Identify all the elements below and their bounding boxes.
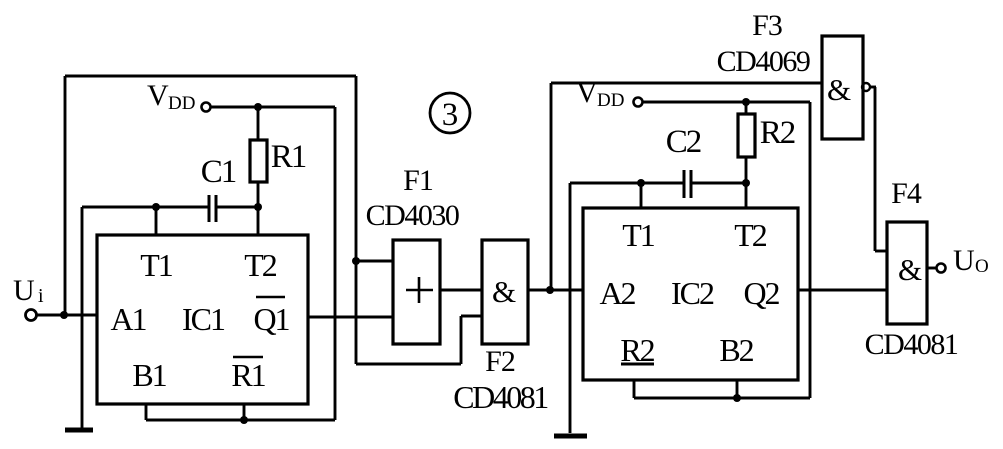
wire F3 output — [870, 86, 876, 89]
svg-text:Q2: Q2 — [743, 275, 779, 311]
svg-text:R2: R2 — [760, 115, 795, 151]
svg-text:A1: A1 — [110, 301, 146, 337]
svg-text:V: V — [576, 76, 598, 109]
terminal Ui — [26, 310, 37, 321]
svg-text:i: i — [38, 285, 44, 307]
wire feedback loop left edge — [64, 76, 67, 315]
label VDD right — [576, 76, 624, 111]
wire VDD rail left — [211, 106, 335, 109]
wire B1 pin drop — [145, 404, 148, 420]
wire VDD rail right — [643, 101, 810, 104]
wire F3 output down — [874, 87, 877, 251]
svg-text:IC2: IC2 — [671, 275, 714, 311]
svg-text:U: U — [13, 274, 35, 307]
IC2 box — [583, 208, 798, 380]
svg-text:B2: B2 — [719, 332, 753, 368]
inverter bubble F3 output — [862, 83, 870, 91]
svg-text:T2: T2 — [734, 217, 767, 253]
wire T1 pin drop — [155, 207, 158, 235]
wire to F1 upper input — [356, 260, 393, 263]
junction dot R1bar bottom bus — [240, 416, 248, 424]
junction dot R1/C1/T2 node — [254, 203, 262, 211]
label VDD left — [147, 79, 195, 114]
junction dot input node — [60, 311, 68, 319]
wire bottom bus right — [634, 397, 810, 400]
XOR plus symbol in F1 — [406, 277, 433, 303]
svg-text:A2: A2 — [599, 275, 635, 311]
wire feedback loop top (Ui to F1/F2) — [65, 75, 356, 78]
svg-text:&: & — [898, 252, 922, 287]
svg-text:DD: DD — [168, 93, 195, 114]
junction dot T1/C1 node — [152, 203, 160, 211]
wire node to C1 left plate — [82, 206, 209, 209]
wire B2 pin drop — [736, 380, 739, 398]
gate F4 box — [887, 222, 927, 324]
resistor R2 — [738, 114, 755, 157]
svg-text:R1: R1 — [231, 357, 265, 393]
wire C1 right plate to R1 bottom node — [216, 206, 258, 209]
wire C2 right plate to R2 bottom node — [691, 182, 746, 185]
wire input Ui to A1 — [37, 314, 97, 317]
junction dot F2 output node — [546, 286, 554, 294]
svg-text:C1: C1 — [201, 154, 236, 190]
wire into F2 lower input — [461, 315, 482, 318]
wire R1 bottom to T2 pin — [257, 182, 260, 235]
svg-text:T1: T1 — [622, 217, 655, 253]
svg-text:F1: F1 — [403, 164, 433, 197]
junction dot F1 upper input — [352, 257, 360, 265]
svg-text:T1: T1 — [140, 247, 173, 283]
gate F3 box — [822, 36, 863, 139]
wire bottom bus left — [146, 419, 335, 422]
junction dot VDD/R1 node — [254, 103, 262, 111]
terminal VDD right — [634, 98, 643, 107]
gate F2 box — [482, 240, 528, 344]
wire bottom step to F2 — [356, 363, 461, 366]
wire R2bar pin drop — [633, 380, 636, 398]
terminal Uo output bubble — [937, 264, 946, 273]
wire VDD to R1 top — [257, 107, 260, 140]
svg-text:IC1: IC1 — [182, 301, 225, 337]
wire T1 node to ground right — [569, 183, 572, 433]
svg-text:CD4081: CD4081 — [453, 379, 548, 415]
circled figure number 3 — [430, 93, 470, 133]
IC1 box — [97, 235, 308, 404]
svg-text:3: 3 — [442, 97, 459, 133]
wire T1 pin drop right — [640, 183, 643, 208]
junction dot T1/C2 node — [637, 179, 645, 187]
wire Q1bar output to F1 input — [308, 316, 393, 319]
svg-text:O: O — [975, 256, 989, 277]
svg-text:CD4081: CD4081 — [865, 328, 958, 361]
wire R1bar pin drop — [243, 404, 246, 420]
label Ui — [13, 274, 44, 307]
wire VDD to R2 top — [745, 102, 748, 114]
svg-text:R1: R1 — [271, 139, 306, 175]
ground right — [554, 434, 587, 439]
label Q1 with overline — [253, 297, 289, 337]
wire T1/C1 node to ground — [81, 207, 84, 428]
svg-text:&: & — [492, 274, 516, 309]
wire step up — [460, 316, 463, 364]
svg-text:CD4069: CD4069 — [717, 45, 810, 78]
svg-text:DD: DD — [597, 90, 624, 111]
svg-text:C2: C2 — [666, 124, 701, 160]
terminal VDD left — [202, 103, 211, 112]
wire F1 output to F2 input — [440, 289, 482, 292]
wire into F4 upper input — [875, 250, 887, 253]
svg-text:&: & — [827, 72, 851, 107]
wire right loop left edge — [550, 83, 553, 290]
wire Q2 output to F4 input — [798, 289, 887, 292]
capacitor C1 plates — [209, 195, 216, 222]
wire node to C2 left plate — [570, 182, 684, 185]
capacitor C2 plates — [684, 170, 691, 198]
wire F4 output stub — [927, 267, 936, 270]
junction dot R2/C2/T2 node — [742, 179, 750, 187]
svg-text:U: U — [953, 244, 975, 277]
label R2bar with underline — [620, 332, 654, 368]
svg-text:CD4030: CD4030 — [366, 199, 459, 232]
wire feedback right edge down — [355, 76, 358, 364]
svg-text:V: V — [147, 79, 169, 112]
wire right loop top to F3 input — [551, 82, 822, 85]
svg-text:B1: B1 — [132, 357, 166, 393]
svg-text:T2: T2 — [244, 247, 277, 283]
wire VDD rail down right of IC2 — [809, 102, 812, 398]
svg-text:F3: F3 — [752, 9, 782, 42]
wire R2 bottom to T2 pin — [745, 157, 748, 208]
svg-text:F2: F2 — [485, 345, 515, 378]
wire VDD rail down right side of IC1 — [334, 107, 337, 420]
junction dot B2 bottom bus — [733, 394, 741, 402]
label R1bar with overline — [231, 357, 265, 393]
ground left — [65, 428, 93, 433]
gate F1 box — [393, 240, 440, 344]
svg-text:Q1: Q1 — [253, 301, 289, 337]
label Uo — [953, 244, 989, 277]
junction dot VDD/R2 node — [742, 98, 750, 106]
resistor R1 — [250, 140, 267, 182]
wire F2 output to A2 — [528, 289, 583, 292]
svg-text:F4: F4 — [891, 177, 922, 210]
